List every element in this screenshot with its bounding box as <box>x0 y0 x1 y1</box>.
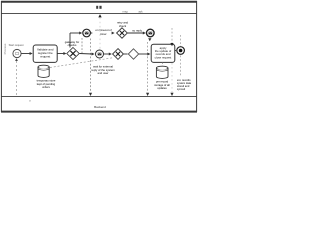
message flow task2 down to bottom pool <box>171 63 173 93</box>
svg-text:msg: msg <box>123 11 128 14</box>
sequence flow task1->gateway1 <box>57 53 64 55</box>
svg-text:synced: synced <box>177 87 186 91</box>
datastore2 <box>156 66 168 78</box>
message flow into task2 top <box>171 28 173 43</box>
svg-text:checks: checks <box>68 43 77 47</box>
association task2 -> datastore2 <box>162 63 164 66</box>
intermediate event D <box>96 50 104 58</box>
svg-text:Process: Process <box>3 43 7 54</box>
svg-text:request: request <box>40 54 50 58</box>
association task1 -> datastore1 (diagonal dashed) <box>50 58 113 68</box>
svg-text:no reply: no reply <box>132 28 143 32</box>
upper message event A <box>83 29 91 37</box>
dashed line through end event <box>180 35 182 46</box>
top pool label <box>96 6 98 9</box>
upper flow A->B with label <box>91 32 113 34</box>
flow task2->end event <box>175 50 176 52</box>
svg-text:timer: timer <box>100 32 106 36</box>
flow gateway2->gateway3 <box>124 53 128 55</box>
svg-text:ack: ack <box>138 10 143 14</box>
svg-text:orders: orders <box>42 85 50 89</box>
upper flow B->C with label <box>128 32 144 34</box>
svg-text:close request: close request <box>155 55 172 59</box>
gateway2 (exclusive X) <box>113 49 124 60</box>
task2 <box>151 44 175 62</box>
svg-text:check: check <box>119 24 127 28</box>
upper end event C <box>147 29 155 37</box>
message flow from C down <box>148 38 151 41</box>
task1 <box>33 45 57 62</box>
terminate end event <box>177 47 185 55</box>
pool frame <box>1 1 197 112</box>
flow gateway3->task2 <box>139 53 148 55</box>
message flow event D up to top pool <box>99 18 101 50</box>
sequence flow start->task1 <box>21 53 31 55</box>
svg-text:and user: and user <box>98 71 109 75</box>
svg-text:updates: updates <box>157 86 167 90</box>
upper gateway B <box>117 28 128 38</box>
start event <box>13 49 21 57</box>
sequence flow gateway1->event D <box>80 53 93 56</box>
datastore1 <box>38 65 49 77</box>
svg-text:Start request: Start request <box>9 43 24 47</box>
message flow from below into start event <box>16 61 18 96</box>
gateway3 (plain) <box>128 49 138 59</box>
flow D->gateway2 <box>104 53 110 55</box>
message flow A down <box>81 38 83 53</box>
elbow flow gateway1 -> upper message event <box>69 33 71 48</box>
gateway1 (exclusive) <box>67 48 79 60</box>
svg-text:Backend: Backend <box>94 105 106 109</box>
